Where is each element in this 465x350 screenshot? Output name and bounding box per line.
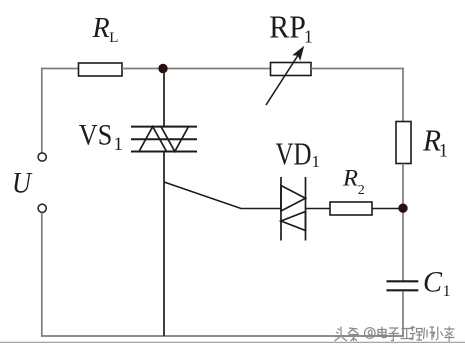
potentiometer RP1 (266, 46, 311, 105)
wire right vertical upper (402, 68, 404, 122)
terminal upper circle (38, 153, 46, 161)
wire right vertical lower (402, 291, 404, 337)
wire left vertical upper (41, 68, 43, 153)
bottom border line (0, 341, 465, 343)
terminal lower circle (38, 204, 46, 212)
svg-text:C: C (423, 266, 443, 299)
svg-text:1: 1 (114, 134, 124, 155)
wire top-left horizontal (41, 68, 79, 70)
svg-text:1: 1 (439, 142, 448, 162)
svg-text:1: 1 (312, 152, 321, 171)
wire diac to R2 (306, 208, 331, 210)
resistor R1 (396, 122, 411, 164)
capacitor C1 (387, 281, 419, 290)
resistor RL (79, 63, 123, 76)
wire left vertical lower (41, 213, 43, 337)
svg-text:U: U (12, 168, 33, 200)
svg-text:1: 1 (443, 283, 451, 300)
svg-text:VS: VS (79, 119, 113, 151)
watermark (335, 326, 455, 342)
resistor R2 (330, 202, 372, 215)
svg-text:R: R (342, 166, 358, 191)
wire triac cathode vertical (163, 152, 165, 337)
wire bottom horizontal (41, 335, 404, 337)
wire top-right horizontal (311, 68, 404, 70)
node junction dot right (398, 204, 407, 213)
wire right vertical middle (402, 164, 404, 281)
wire triac anode vertical (163, 69, 165, 127)
wire R2 to node (372, 208, 403, 210)
diac VD1 (281, 177, 306, 241)
triac VS1 (131, 127, 197, 152)
svg-text:2: 2 (358, 183, 365, 198)
wire gate polyline (164, 182, 281, 209)
node junction dot top (158, 64, 167, 73)
svg-text:1: 1 (304, 27, 313, 47)
svg-text:R: R (92, 13, 110, 44)
wire top middle (122, 68, 271, 70)
svg-text:VD: VD (276, 135, 312, 171)
svg-text:L: L (109, 30, 118, 46)
svg-text:RP: RP (269, 8, 306, 44)
